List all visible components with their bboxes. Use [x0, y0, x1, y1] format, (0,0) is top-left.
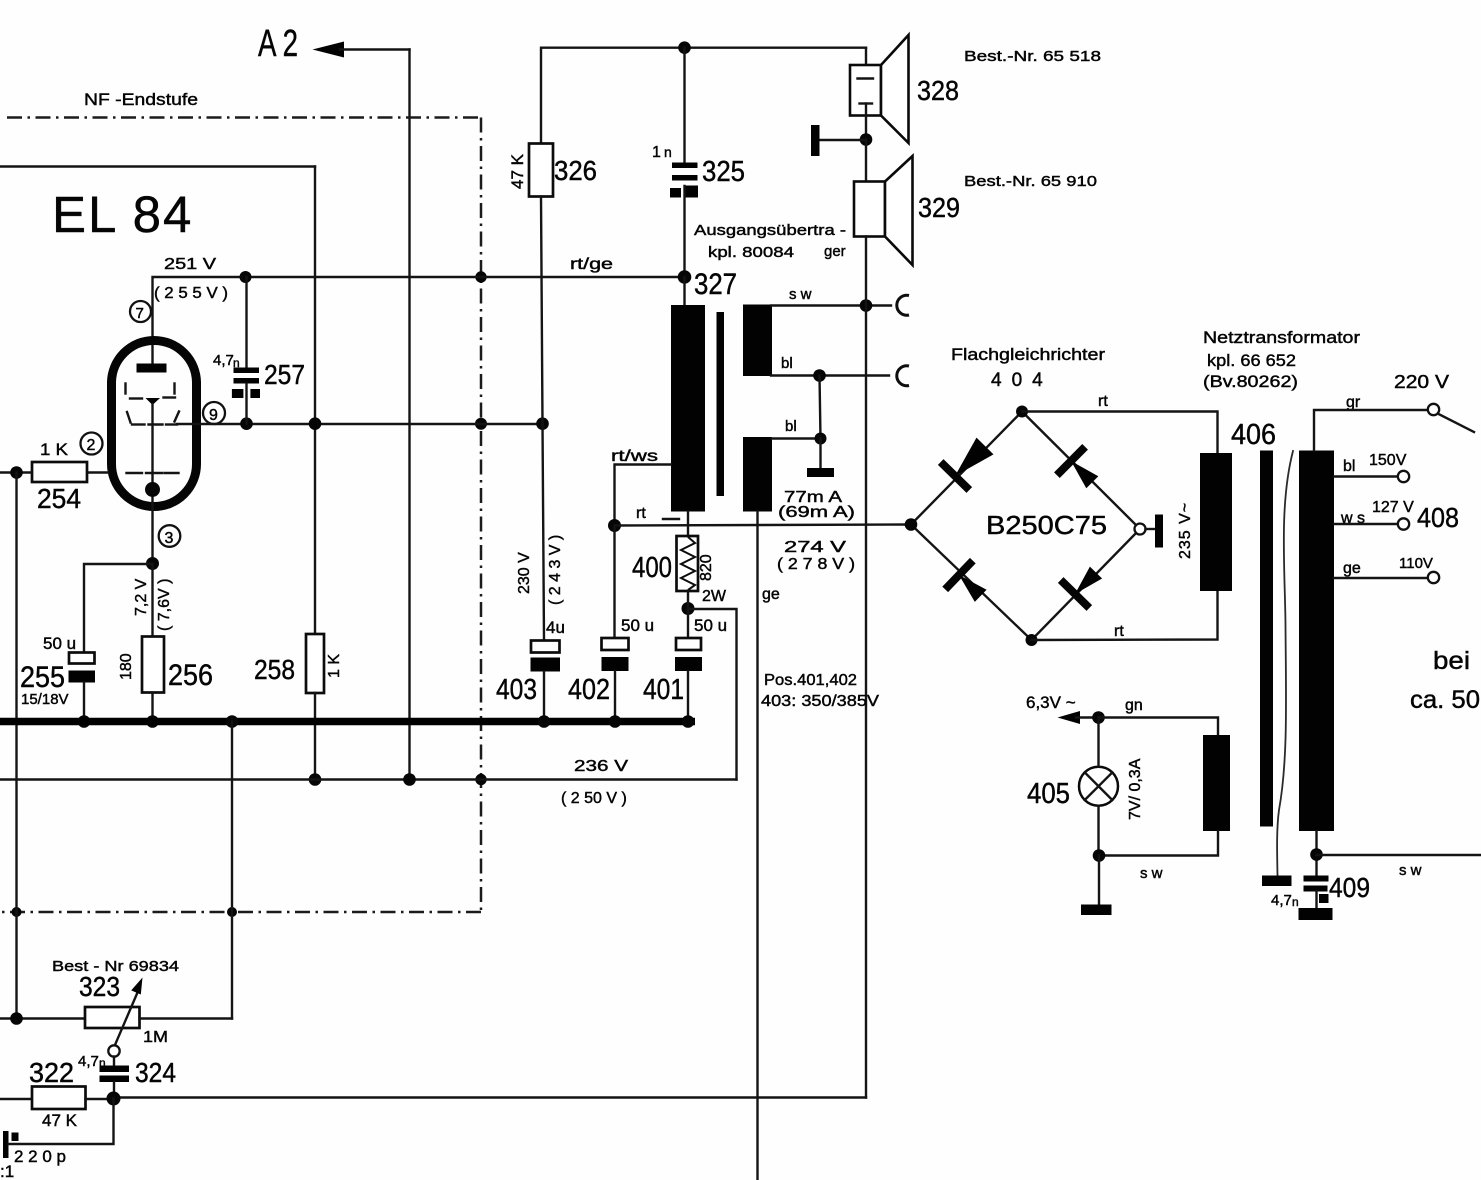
node bridge left	[905, 518, 918, 531]
wire R326 to screen line	[541, 197, 543, 424]
svg-text:bl: bl	[781, 355, 793, 372]
svg-text:rt/ge: rt/ge	[570, 256, 613, 273]
wire screen line	[177, 423, 543, 425]
svg-text:( 2 4 3 V ): ( 2 4 3 V )	[547, 535, 564, 605]
pin 7	[130, 301, 151, 322]
svg-text:kpl. 66 652: kpl. 66 652	[1207, 351, 1296, 370]
wire A2 to junction	[340, 48, 410, 50]
node bl lower	[815, 433, 827, 445]
transformer 406 primary winding	[1200, 453, 1232, 591]
svg-text:408: 408	[1417, 502, 1459, 533]
svg-text:bl: bl	[785, 418, 797, 435]
svg-text:7: 7	[136, 305, 144, 322]
svg-text:ge: ge	[1343, 560, 1361, 577]
svg-text:404: 404	[991, 370, 1053, 391]
tube cathode wire	[151, 404, 153, 564]
svg-text:1 K: 1 K	[40, 440, 69, 459]
lamp 405	[1027, 758, 1144, 820]
speaker 328	[850, 35, 959, 143]
wire 127V tap	[1334, 523, 1398, 525]
wire A2 vertical	[408, 50, 410, 781]
wire sw tap	[771, 304, 891, 306]
node on lower dash-dot at x=16.5	[12, 907, 22, 917]
capacitor C401 (50u)	[643, 616, 727, 706]
svg-text:405: 405	[1027, 778, 1070, 810]
wire R326 node down to C403	[543, 424, 545, 641]
svg-text:kpl. 80084: kpl. 80084	[708, 244, 794, 261]
svg-text:110V: 110V	[1399, 555, 1433, 572]
tube anode plate	[137, 364, 167, 373]
node sw speaker line	[860, 299, 873, 312]
svg-text:257: 257	[264, 359, 305, 390]
bridge right open terminal	[1135, 524, 1146, 535]
node on 236V line at box edge	[475, 774, 486, 785]
wire 150V tap	[1334, 475, 1398, 477]
svg-text:328: 328	[917, 75, 959, 106]
resistor 256 (180)	[118, 637, 213, 693]
wire R400 node to 236V line	[688, 609, 737, 780]
node bus x232	[226, 715, 239, 728]
resistor 254 (1K)	[32, 440, 87, 514]
svg-text:2 2 0 p: 2 2 0 p	[14, 1147, 66, 1166]
svg-text:324: 324	[135, 1057, 176, 1088]
wire C402 to bus	[614, 671, 616, 721]
label bl 150V	[1343, 452, 1407, 475]
wire feedback vertical	[865, 237, 867, 1098]
wire ge vertical	[756, 512, 758, 1180]
label rt with dash	[636, 505, 679, 522]
node B+ left	[608, 519, 621, 532]
svg-text:gr: gr	[1346, 394, 1361, 411]
capacitor C403 (4u)	[496, 618, 565, 706]
terminal 220V	[1428, 404, 1439, 415]
svg-text:820: 820	[698, 554, 715, 581]
label Netztransformator	[1203, 328, 1360, 391]
svg-text:( 2 7 8 V ): ( 2 7 8 V )	[777, 556, 855, 573]
tube grid g2 (screen)	[127, 412, 179, 425]
label Ausgangsuebertrager	[694, 222, 846, 261]
wire C403 to bus	[543, 672, 545, 722]
pin 9	[203, 402, 225, 424]
svg-text:409: 409	[1329, 872, 1370, 903]
terminal 150V	[1398, 471, 1409, 482]
svg-text:bei: bei	[1433, 647, 1470, 675]
resistor 326 (47K)	[508, 144, 597, 197]
wire 323 right	[140, 1017, 233, 1019]
shield terminal bar	[1262, 876, 1292, 887]
pot 323 wiper arrow	[108, 978, 142, 1057]
transformer 327	[671, 268, 772, 512]
svg-text:gn: gn	[1125, 697, 1143, 714]
node screen/R258	[309, 417, 322, 430]
node 322/324 junction	[107, 1092, 121, 1106]
transformer 406 secondary winding	[1299, 451, 1334, 832]
wire to primary top	[683, 277, 685, 305]
wire secondary bottom	[1315, 831, 1317, 876]
wire C401 to bus	[687, 671, 689, 721]
node top left	[678, 41, 691, 54]
svg-text:ca. 50: ca. 50	[1410, 686, 1480, 714]
switch lever	[1439, 414, 1475, 432]
label Pos 401 402 403	[761, 672, 879, 710]
node R400 bottom	[682, 602, 695, 615]
node anode/C257	[240, 271, 252, 283]
wire left vertical to 323	[15, 473, 17, 1019]
svg-text:150V: 150V	[1369, 452, 1407, 469]
capacitor C325 (1n)	[652, 48, 745, 277]
svg-text:9: 9	[209, 407, 218, 424]
capacitor C255 (50u)	[20, 634, 95, 708]
node C325 / anode line	[678, 270, 692, 284]
bridge plus terminal bar	[1146, 515, 1164, 548]
wire cathode to R256	[151, 564, 153, 637]
node on lower dash-dot at x=232	[227, 907, 237, 917]
svg-text:( 7,6V ): ( 7,6V )	[156, 579, 173, 631]
wire primary bottom to R400	[687, 512, 689, 537]
connector C top	[897, 295, 909, 315]
svg-text:EL 84: EL 84	[52, 186, 193, 243]
node C401 bus	[682, 715, 695, 728]
svg-text:( 2 50 V ): ( 2 50 V )	[561, 790, 627, 807]
svg-text:Flachgleichrichter: Flachgleichrichter	[951, 345, 1105, 364]
svg-text:329: 329	[918, 192, 960, 223]
wire lamp leads	[1097, 718, 1099, 856]
svg-text:47 K: 47 K	[508, 153, 527, 189]
potentiometer 323 (1M)	[79, 971, 168, 1046]
svg-text:Best.-Nr. 65 910: Best.-Nr. 65 910	[964, 173, 1097, 190]
wire lamp to ground	[1098, 856, 1100, 905]
wire filament to sw node	[1099, 831, 1218, 856]
node on screen line at box edge	[475, 418, 487, 430]
svg-text:402: 402	[568, 674, 610, 706]
diode D3 lower-left	[945, 561, 986, 602]
svg-text:s w: s w	[1140, 865, 1163, 882]
arrow 6,3V	[1058, 711, 1081, 724]
resistor 322 (47K)	[0, 1087, 114, 1131]
wire anode line	[153, 277, 685, 364]
svg-text:235 V~: 235 V~	[1177, 502, 1194, 559]
svg-text:258: 258	[254, 654, 295, 685]
svg-text:406: 406	[1231, 419, 1276, 451]
svg-text:403: 403	[496, 674, 537, 706]
resistor 258 (1K)	[254, 634, 343, 693]
svg-text:Netztransformator: Netztransformator	[1203, 328, 1360, 347]
transformer shield wire	[1277, 451, 1293, 875]
label ws 127V	[1340, 499, 1414, 527]
svg-text:Ausgangsübertra -: Ausgangsübertra -	[694, 222, 846, 239]
node screen/R326	[536, 417, 549, 430]
svg-text:7,2 V: 7,2 V	[133, 578, 150, 616]
svg-text:325: 325	[702, 156, 745, 188]
svg-text:1M: 1M	[143, 1029, 168, 1046]
resistor 400 (820 2W)	[632, 536, 727, 605]
label 236V (250V)	[561, 758, 628, 807]
wire R258 to 236V line	[314, 693, 316, 780]
node left vertical / 323	[10, 1012, 23, 1025]
wire frame vertical to R258	[314, 167, 316, 635]
label 251V / (255V)	[154, 256, 228, 302]
node lamp bottom	[1093, 849, 1106, 862]
label 77mA (69mA)	[778, 489, 855, 521]
svg-text:rt: rt	[1114, 623, 1124, 640]
terminal 110V	[1428, 572, 1439, 583]
svg-text:7V/ 0,3A: 7V/ 0,3A	[1127, 758, 1144, 820]
diode D4 lower-right	[1061, 567, 1102, 608]
svg-text:15/18V: 15/18V	[21, 691, 69, 708]
svg-text:s w: s w	[1399, 862, 1422, 879]
wire 220V tap	[1314, 410, 1428, 451]
svg-text:ger: ger	[824, 243, 846, 260]
svg-text:NF -Endstufe: NF -Endstufe	[84, 90, 198, 109]
node screen/C257	[240, 417, 253, 430]
svg-text:255: 255	[20, 661, 65, 694]
capacitor C257 (4,7n)	[213, 277, 305, 424]
wire cathode to C255	[84, 564, 153, 653]
tube grid g1	[127, 472, 179, 474]
wire bl tap upper	[771, 374, 889, 376]
svg-text:(69m A): (69m A)	[778, 504, 855, 521]
svg-text:n: n	[1292, 895, 1299, 909]
filament winding 406a	[1203, 735, 1230, 831]
svg-text:Best.-Nr. 65 518: Best.-Nr. 65 518	[964, 48, 1101, 65]
svg-text:254: 254	[37, 483, 81, 514]
label Flachgleichrichter 404	[951, 345, 1105, 391]
svg-text:127 V: 127 V	[1372, 499, 1414, 516]
wire 110V tap	[1334, 577, 1428, 579]
svg-text:bl: bl	[1343, 458, 1355, 475]
svg-text:6,3V ~: 6,3V ~	[1026, 693, 1076, 712]
speaker 329	[854, 156, 960, 265]
capacitor C324	[100, 1057, 177, 1099]
terminal bar speakers	[811, 125, 866, 156]
svg-text:401: 401	[643, 674, 684, 706]
svg-text:rt: rt	[636, 505, 646, 522]
svg-text:rt: rt	[1098, 393, 1108, 410]
svg-text:251 V: 251 V	[164, 256, 216, 273]
svg-text:180: 180	[118, 653, 135, 680]
svg-text:50 u: 50 u	[694, 616, 727, 635]
label 7,2V (7,6V)	[133, 578, 173, 631]
terminal 127V	[1398, 518, 1409, 529]
svg-text:4,7: 4,7	[1271, 892, 1292, 909]
wire arrow to node	[1076, 716, 1099, 718]
svg-text:47 K: 47 K	[42, 1111, 78, 1130]
svg-text:ge: ge	[762, 586, 780, 603]
svg-text:274 V: 274 V	[784, 539, 846, 556]
svg-text:Pos.401,402: Pos.401,402	[764, 672, 857, 689]
svg-text:323: 323	[79, 971, 120, 1002]
capacitor 220p	[3, 1099, 114, 1167]
svg-text:327: 327	[694, 268, 737, 301]
svg-text:2: 2	[87, 437, 96, 454]
node bridge top	[1016, 406, 1028, 418]
wire B+ line to rectifier	[615, 525, 910, 526]
transformer 406 core	[1260, 451, 1273, 827]
diode D1 upper-left	[941, 438, 994, 490]
node bridge bottom	[1026, 634, 1038, 646]
wire R256 to bus	[151, 693, 153, 722]
node R254 left	[10, 466, 23, 479]
node secondary sw	[1310, 848, 1323, 861]
node bl upper	[813, 369, 826, 382]
pin 2	[81, 433, 103, 455]
svg-text:B250C75: B250C75	[986, 510, 1107, 540]
node C402 bus	[609, 715, 622, 728]
svg-text:322: 322	[29, 1057, 74, 1088]
svg-text:( 2 5 5 V ): ( 2 5 5 V )	[154, 285, 228, 302]
wire feedback bottom	[114, 1096, 867, 1098]
svg-text:400: 400	[632, 552, 672, 584]
svg-text:2W: 2W	[702, 588, 727, 605]
svg-text:50 u: 50 u	[621, 616, 654, 635]
node R256 bus	[146, 715, 159, 728]
diode D2 upper-right	[1057, 447, 1098, 488]
wire into speaker 329	[865, 140, 867, 182]
wire bridge bottom to trafo	[1032, 591, 1218, 640]
wire 323 line left	[0, 1017, 85, 1019]
node C255 bus	[78, 715, 91, 728]
node speaker terminal	[860, 133, 873, 146]
tube EL84 envelope	[112, 341, 197, 507]
node A2	[258, 23, 344, 65]
svg-text:4,7: 4,7	[78, 1053, 99, 1070]
node R258 236V	[309, 773, 322, 786]
NF-Endstufe enclosure (dash-dot)	[0, 90, 481, 912]
svg-text:A 2: A 2	[258, 23, 298, 65]
svg-text:s w: s w	[789, 286, 812, 303]
wire bl tap lower	[772, 437, 821, 439]
node C403 bus	[538, 715, 551, 728]
wire g1 to R254	[87, 471, 108, 473]
wire sw right	[1317, 854, 1481, 856]
wire gn to filament winding	[1099, 718, 1219, 736]
wire top node line	[541, 48, 866, 144]
tube grid g3	[126, 384, 176, 406]
svg-text:1: 1	[652, 144, 661, 161]
wire R254 left	[0, 471, 32, 473]
capacitor C402 (50u)	[568, 616, 654, 706]
wire C255 to bus	[83, 683, 85, 722]
svg-text:220 V: 220 V	[1394, 372, 1449, 392]
label bei ca.50	[1410, 647, 1480, 714]
label ge 110V	[1343, 555, 1433, 577]
wire top frame	[0, 165, 315, 167]
node cathode	[145, 482, 160, 497]
svg-text:256: 256	[168, 659, 213, 692]
wire x232 vertical to 323	[231, 722, 233, 1019]
svg-text:230 V: 230 V	[516, 552, 533, 594]
svg-text:50 u: 50 u	[43, 634, 76, 653]
svg-text:326: 326	[554, 155, 597, 186]
pin 3	[159, 525, 181, 547]
svg-text:4u: 4u	[546, 618, 565, 637]
capacitor C409 (4,7n)	[1299, 872, 1371, 920]
node on anode line at box edge	[475, 271, 486, 282]
rectifier bridge U404 B250C75	[911, 412, 1140, 641]
svg-text:(Bv.80262): (Bv.80262)	[1203, 372, 1298, 391]
connector C lower	[897, 366, 909, 386]
svg-text:236 V: 236 V	[574, 758, 628, 775]
svg-text:403: 350/385V: 403: 350/385V	[761, 693, 879, 710]
svg-text:rt/ws: rt/ws	[611, 448, 658, 465]
wire bl link vertical	[820, 376, 821, 439]
wire B+ to C402	[613, 526, 615, 639]
wire rt-ws tap	[615, 465, 672, 526]
svg-text:1 K: 1 K	[326, 654, 343, 678]
terminal bar below bl	[807, 439, 834, 478]
label 274V (278V)	[777, 539, 855, 573]
svg-text::1: :1	[0, 1162, 14, 1180]
node cathode branch	[146, 557, 159, 570]
ground bar lamp	[1081, 905, 1112, 916]
svg-text:3: 3	[165, 530, 174, 547]
wire bridge top to trafo	[1022, 412, 1218, 454]
wire 236V line	[0, 778, 737, 780]
svg-text:4,7: 4,7	[213, 352, 234, 369]
node A2/236V	[403, 773, 416, 786]
ground bus	[0, 718, 695, 726]
wire R400 to C401	[687, 591, 689, 638]
svg-text:n: n	[664, 144, 672, 160]
node lamp top	[1092, 711, 1105, 724]
label 230V (243V)	[516, 535, 564, 605]
